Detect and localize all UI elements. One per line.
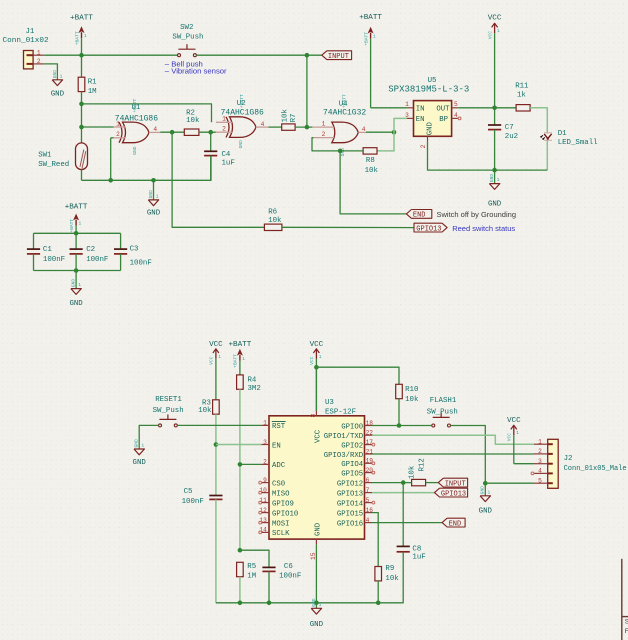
capacitor C8 [397, 546, 426, 562]
svg-text:C2: C2 [86, 246, 95, 254]
junction [305, 53, 310, 58]
junction [314, 365, 319, 370]
svg-text:+BATT: +BATT [132, 98, 138, 112]
svg-text:100nF: 100nF [130, 259, 152, 267]
svg-text:7: 7 [366, 487, 370, 494]
svg-text:SW2: SW2 [180, 24, 193, 32]
svg-text:GND: GND [238, 140, 244, 149]
svg-text:SW1: SW1 [38, 152, 52, 160]
hierarchical label GPIO13 [435, 488, 468, 498]
ground [147, 180, 161, 217]
svg-text:R5: R5 [247, 563, 256, 571]
junction [338, 149, 343, 154]
svg-text:VCC: VCC [309, 356, 315, 365]
svg-text:GPIO15: GPIO15 [337, 510, 363, 518]
svg-text:1: 1 [319, 602, 322, 608]
svg-text:GND: GND [147, 210, 161, 218]
svg-text:12: 12 [259, 507, 267, 514]
wire [160, 131, 184, 133]
svg-text:GPIO13: GPIO13 [441, 490, 466, 498]
ground [133, 439, 147, 467]
svg-text:END: END [413, 212, 426, 220]
svg-text:RESET1: RESET1 [155, 396, 182, 404]
svg-text:SCLK: SCLK [272, 530, 290, 538]
svg-text:5: 5 [454, 101, 458, 108]
svg-text:14: 14 [259, 527, 267, 534]
wire [81, 55, 83, 77]
gate U4 74AHC1G32 [312, 94, 366, 156]
capacitor C7 [488, 108, 518, 170]
svg-text:74AHC1G86: 74AHC1G86 [221, 109, 264, 118]
svg-text:INPUT: INPUT [445, 480, 466, 488]
wire [199, 131, 216, 133]
svg-text:+BATT: +BATT [359, 14, 382, 22]
svg-text:END: END [449, 520, 462, 528]
power +BATT [65, 204, 88, 234]
svg-text:4: 4 [362, 126, 366, 133]
resistor R4 [237, 375, 261, 393]
svg-text:ADC: ADC [272, 462, 286, 470]
svg-text:11: 11 [259, 497, 267, 504]
svg-text:1: 1 [263, 420, 267, 427]
svg-text:GND: GND [310, 621, 324, 629]
svg-text:74AHC1G32: 74AHC1G32 [323, 109, 366, 118]
wire [394, 118, 407, 132]
svg-text:1: 1 [156, 193, 159, 199]
power VCC [309, 341, 323, 411]
svg-text:10k: 10k [385, 575, 399, 583]
junction [238, 601, 243, 606]
wire [398, 399, 400, 426]
wire [268, 571, 270, 602]
power +BATT [70, 15, 93, 56]
svg-text:GPIO14: GPIO14 [337, 500, 364, 508]
capacitor C2 [70, 233, 109, 270]
svg-text:GPIO4: GPIO4 [341, 461, 364, 469]
svg-text:1: 1 [78, 282, 81, 288]
svg-text:2: 2 [263, 459, 267, 466]
svg-text:4: 4 [261, 121, 265, 128]
svg-text:OUT: OUT [436, 106, 450, 114]
junction [170, 130, 175, 135]
svg-text:Conn_01x05_Male: Conn_01x05_Male [564, 465, 627, 473]
power VCC [209, 341, 223, 400]
ground [479, 483, 493, 515]
svg-text:1: 1 [516, 430, 519, 436]
wire [196, 54, 321, 56]
svg-text:100nF: 100nF [182, 498, 204, 506]
svg-text:1: 1 [405, 101, 409, 108]
junction [214, 442, 219, 447]
title block frame [622, 559, 628, 640]
junction [397, 423, 402, 428]
svg-text:GPIO2: GPIO2 [341, 442, 363, 450]
svg-text:D1: D1 [558, 130, 567, 138]
wire [44, 64, 57, 75]
svg-text:3: 3 [405, 112, 409, 119]
power VCC [507, 417, 521, 464]
wire [82, 104, 212, 122]
wire [269, 126, 282, 128]
svg-text:GPIO0: GPIO0 [341, 423, 363, 431]
svg-text:1: 1 [242, 356, 245, 362]
svg-text:EN: EN [272, 442, 281, 450]
wire [82, 156, 212, 181]
junction [267, 601, 272, 606]
svg-text:2: 2 [37, 58, 41, 65]
hierarchical label INPUT [322, 51, 352, 61]
svg-text:3: 3 [538, 458, 542, 465]
wire [34, 270, 121, 272]
wire [372, 482, 412, 484]
svg-text:CS0: CS0 [272, 480, 285, 488]
svg-text:GPIO13: GPIO13 [337, 490, 363, 498]
wire [426, 482, 439, 484]
hierarchical label GPIO13 [414, 223, 447, 233]
wire [81, 170, 83, 181]
wire [485, 482, 534, 484]
svg-text:VCC: VCC [487, 31, 493, 40]
svg-text:C7: C7 [505, 124, 514, 132]
svg-text:74AHC1G86: 74AHC1G86 [115, 114, 158, 123]
LED D1 [540, 130, 598, 147]
wire [111, 137, 114, 139]
power +BATT [359, 14, 382, 108]
svg-text:100nF: 100nF [86, 256, 108, 264]
wire [372, 453, 534, 455]
wire [139, 425, 158, 449]
svg-text:2: 2 [538, 448, 542, 455]
svg-text:1: 1 [497, 28, 500, 34]
svg-text:1k: 1k [517, 91, 526, 99]
junction [79, 125, 84, 130]
svg-text:1: 1 [497, 177, 500, 183]
svg-text:4: 4 [538, 468, 542, 475]
wire [81, 92, 83, 143]
svg-text:10k: 10k [186, 117, 200, 125]
hierarchical label END [442, 518, 465, 528]
svg-text:4: 4 [153, 126, 157, 133]
junction [483, 481, 488, 486]
wire [44, 54, 177, 56]
wire [372, 513, 378, 567]
resistor R8 [363, 148, 378, 175]
svg-text:BP: BP [439, 116, 448, 124]
connector J2 [531, 438, 627, 488]
wire [316, 367, 399, 384]
wire [372, 425, 432, 427]
junction [305, 125, 310, 130]
svg-text:C8: C8 [412, 546, 421, 554]
svg-text:1M: 1M [88, 88, 97, 96]
power VCC [487, 15, 501, 108]
svg-text:GPIO10: GPIO10 [272, 510, 298, 518]
hierarchical label END [406, 210, 431, 220]
wire [240, 550, 269, 567]
wire [377, 581, 379, 603]
svg-text:GND: GND [51, 91, 65, 99]
svg-text:SW_Push: SW_Push [172, 34, 203, 42]
svg-text:GND: GND [134, 439, 140, 448]
svg-text:GND: GND [69, 300, 83, 308]
svg-text:RST: RST [272, 423, 286, 431]
junction [238, 548, 243, 553]
switch RESET1 [153, 396, 184, 427]
svg-text:GND: GND [479, 507, 493, 515]
svg-text:GPIO16: GPIO16 [337, 520, 363, 528]
svg-text:+BATT: +BATT [229, 341, 252, 349]
svg-text:+BATT: +BATT [69, 219, 75, 233]
svg-text:MOSI: MOSI [272, 520, 290, 528]
junction [79, 53, 84, 58]
svg-text:GND: GND [427, 122, 435, 136]
wire [82, 126, 114, 128]
svg-text:GND: GND [52, 70, 58, 79]
svg-text:10k: 10k [268, 217, 282, 225]
junction [401, 480, 406, 485]
svg-text:GND: GND [311, 598, 317, 607]
svg-text:1: 1 [218, 354, 221, 360]
svg-text:8: 8 [310, 414, 317, 418]
svg-text:R1: R1 [88, 79, 97, 87]
svg-text:GPIO13: GPIO13 [416, 225, 441, 233]
switch SW2 [172, 24, 203, 57]
svg-text:GND: GND [489, 174, 495, 183]
IC U3 ESP-12F [259, 399, 375, 560]
svg-text:Conn_01x02: Conn_01x02 [3, 37, 50, 45]
svg-text:1: 1 [60, 73, 63, 79]
svg-text:VCC: VCC [209, 356, 215, 365]
wire [215, 414, 217, 495]
svg-text:LED_Small: LED_Small [558, 139, 598, 147]
junction [74, 268, 79, 273]
svg-text:SPX3819M5-L-3-3: SPX3819M5-L-3-3 [388, 85, 469, 95]
svg-text:1: 1 [322, 121, 326, 128]
resistor R9 [375, 565, 399, 583]
wire [315, 544, 317, 603]
svg-text:SW_Reed: SW_Reed [38, 161, 69, 169]
wire [371, 107, 407, 109]
svg-text:VCC: VCC [507, 417, 521, 425]
capacitor C5 [182, 488, 223, 506]
capacitor C3 [114, 233, 152, 270]
svg-text:Switch off by Grounding: Switch off by Grounding [437, 210, 517, 219]
regulator U5 SPX3819M5-L-3-3 [388, 77, 469, 148]
svg-text:+BATT: +BATT [363, 32, 369, 46]
svg-text:1uF: 1uF [412, 554, 425, 562]
wire [110, 138, 112, 181]
svg-text:5: 5 [538, 477, 542, 484]
svg-text:4: 4 [454, 112, 458, 119]
svg-text:C5: C5 [184, 488, 193, 496]
junction [376, 601, 381, 606]
junction [492, 168, 497, 173]
wire [216, 444, 262, 446]
svg-text:3: 3 [263, 439, 267, 446]
svg-text:C3: C3 [130, 245, 139, 253]
resistor R11 [515, 82, 530, 111]
power +BATT [229, 341, 252, 375]
wire [239, 389, 241, 550]
ground [488, 170, 502, 209]
connector J1 [3, 28, 50, 69]
svg-text:10k: 10k [365, 167, 379, 175]
svg-text:GND: GND [480, 486, 486, 495]
svg-text:J1: J1 [26, 28, 35, 36]
svg-text:+BATT: +BATT [70, 15, 93, 23]
svg-text:– Vibration sensor: – Vibration sensor [165, 66, 227, 75]
wire [239, 577, 241, 603]
svg-text:1: 1 [79, 221, 82, 227]
wire [514, 463, 534, 465]
svg-text:EN: EN [416, 116, 425, 124]
wire [377, 132, 394, 151]
svg-text:1: 1 [37, 49, 41, 56]
junction [74, 231, 79, 236]
wire [295, 126, 312, 128]
svg-text:100nF: 100nF [43, 256, 65, 264]
svg-text:GND: GND [133, 459, 147, 467]
svg-text:VCC: VCC [209, 341, 223, 349]
wire [315, 367, 317, 411]
gate U1 74AHC1G86 [114, 98, 161, 154]
junction [108, 178, 113, 183]
svg-text:R9: R9 [385, 565, 394, 573]
svg-text:6: 6 [366, 477, 370, 484]
wire [215, 499, 217, 602]
svg-text:J2: J2 [564, 455, 573, 463]
svg-text:2: 2 [322, 131, 326, 138]
resistor R1 [78, 77, 97, 96]
svg-text:GPIO12: GPIO12 [337, 480, 363, 488]
svg-text:C4: C4 [222, 151, 231, 159]
switch SW1 reed [38, 143, 87, 170]
svg-text:U3: U3 [325, 399, 334, 407]
wire [210, 132, 212, 151]
svg-text:1: 1 [319, 354, 322, 360]
resistor R7 [282, 109, 298, 131]
svg-text:2u2: 2u2 [505, 133, 518, 141]
svg-text:+BATT: +BATT [341, 94, 347, 108]
svg-text:GPIO9: GPIO9 [272, 500, 294, 508]
svg-text:R6: R6 [268, 208, 277, 216]
svg-text:ESP-12F: ESP-12F [325, 408, 356, 416]
svg-text:R7: R7 [290, 114, 298, 123]
wire [172, 132, 264, 227]
svg-text:R11: R11 [515, 82, 529, 90]
svg-text:9: 9 [263, 477, 267, 484]
svg-text:GPIO3/RXD: GPIO3/RXD [324, 452, 364, 460]
hierarchical label INPUT [438, 478, 467, 488]
svg-text:R8: R8 [366, 157, 375, 165]
wire [210, 156, 212, 181]
svg-text:INPUT: INPUT [328, 53, 349, 61]
svg-text:VCC: VCC [488, 15, 502, 23]
switch FLASH1 [427, 397, 458, 427]
svg-text:GND: GND [132, 146, 138, 155]
svg-text:Reed switch status: Reed switch status [452, 224, 515, 233]
svg-text:VCC: VCC [507, 433, 513, 442]
svg-text:SW_Push: SW_Push [427, 408, 458, 416]
wire [340, 151, 406, 214]
junction [151, 178, 156, 183]
svg-text:VCC: VCC [314, 429, 322, 443]
ground [310, 598, 324, 629]
svg-text:10k: 10k [405, 396, 419, 404]
svg-text:GND: GND [314, 522, 322, 536]
junction [492, 106, 497, 111]
wire [177, 424, 261, 426]
resistor R12 [408, 458, 426, 486]
wire [458, 107, 516, 109]
gate U2 74AHC1G86 [216, 94, 269, 148]
svg-text:R12: R12 [418, 458, 426, 471]
junction [314, 601, 319, 606]
capacitor C4 [204, 151, 235, 168]
wire [372, 435, 534, 444]
junction [79, 102, 84, 107]
wire [34, 232, 121, 234]
svg-text:2: 2 [116, 131, 120, 138]
wire [282, 226, 414, 228]
svg-text:GND: GND [71, 279, 77, 288]
svg-text:MISO: MISO [272, 490, 290, 498]
resistor R10 [396, 384, 419, 404]
capacitor C6 [262, 563, 301, 581]
svg-text:SW_Push: SW_Push [153, 407, 184, 415]
junction [208, 130, 213, 135]
junction [238, 462, 243, 467]
resistor R3 [198, 399, 219, 415]
svg-text:4: 4 [366, 517, 370, 524]
wire [428, 142, 548, 170]
wire [546, 140, 548, 170]
svg-text:1: 1 [373, 34, 376, 40]
svg-text:2: 2 [222, 126, 226, 133]
svg-text:10: 10 [259, 487, 267, 494]
svg-text:10k: 10k [198, 407, 212, 415]
svg-text:R10: R10 [405, 386, 418, 394]
wire [366, 131, 394, 133]
svg-text:1: 1 [488, 489, 491, 495]
svg-text:GPIO1/TXD: GPIO1/TXD [324, 433, 364, 441]
svg-text:100nF: 100nF [279, 573, 301, 581]
wire [312, 138, 363, 151]
svg-text:R4: R4 [248, 376, 257, 384]
capacitor C1 [27, 233, 65, 270]
svg-text:GND: GND [148, 190, 154, 199]
svg-text:1M: 1M [247, 572, 256, 580]
svg-text:10k: 10k [408, 465, 416, 479]
resistor R2 [184, 110, 200, 136]
wire [240, 463, 262, 465]
svg-text:3M2: 3M2 [248, 385, 261, 393]
svg-text:C1: C1 [43, 246, 52, 254]
wire [372, 492, 435, 494]
ground [69, 271, 83, 309]
svg-text:+BATT: +BATT [74, 31, 80, 45]
wire [216, 552, 403, 603]
svg-text:GPIO5: GPIO5 [341, 470, 363, 478]
resistor R6 [264, 208, 282, 230]
svg-text:1uF: 1uF [222, 159, 235, 167]
svg-text:FLASH1: FLASH1 [430, 397, 457, 405]
svg-text:IN: IN [416, 106, 425, 114]
svg-text:2: 2 [420, 144, 427, 148]
junction [392, 130, 397, 135]
svg-text:1: 1 [538, 438, 542, 445]
svg-text:13: 13 [259, 517, 267, 524]
